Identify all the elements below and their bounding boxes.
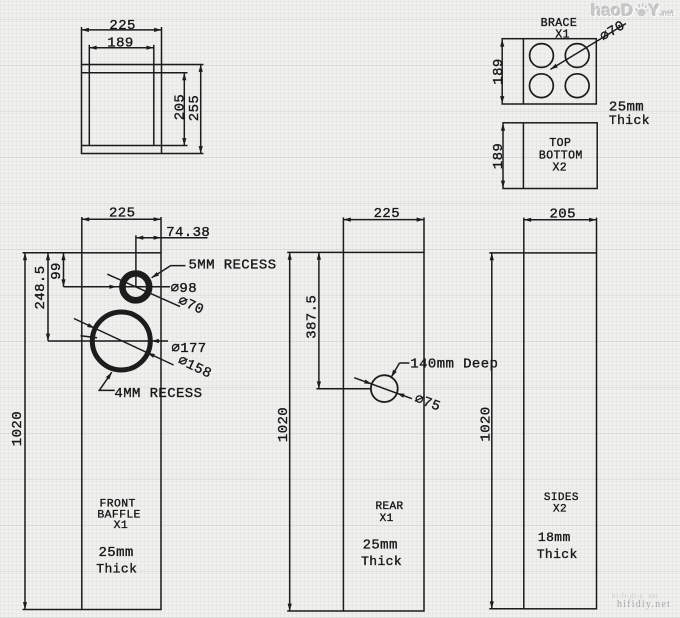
section inner top wall line [82, 72, 188, 74]
arrows 205 sides [524, 218, 531, 222]
sides right edge ext up [596, 218, 598, 253]
140mm deep leader diagonal [391, 363, 399, 377]
arrows 1020 sides [490, 253, 494, 260]
sides rect [524, 253, 597, 609]
front dia177 dim line [48, 340, 168, 342]
front left edge ext up [81, 217, 83, 253]
section inner bottom wall line [82, 145, 188, 147]
arrows 74.38 [136, 236, 143, 240]
arrows 99 [61, 253, 65, 260]
arrow 4mm recess leader [106, 371, 114, 379]
woofer ring [92, 312, 150, 370]
5mm recess leader [152, 266, 186, 278]
arrow 140mm leader [389, 370, 396, 379]
svg-text:X2: X2 [553, 504, 567, 516]
top-bottom rect [503, 123, 597, 189]
svg-text:X1: X1 [114, 520, 128, 532]
arrow 5mm recess leader [150, 272, 158, 280]
dim line 205 (section) [183, 73, 185, 146]
svg-text:205: 205 [173, 94, 189, 120]
arrows 225 section [82, 28, 89, 32]
svg-text:189: 189 [491, 143, 507, 169]
section top edge extension right [162, 64, 204, 66]
rear left edge ext up [342, 217, 344, 252]
svg-text:18mm: 18mm [538, 530, 571, 545]
front dia177 oblique arrow segment [81, 336, 98, 338]
sides bottom ext to 1020 dim [489, 608, 524, 610]
arrows dia158 [87, 323, 95, 330]
arrow dia70 brace leader [549, 64, 558, 71]
top-bottom divider line [522, 123, 524, 189]
svg-text:Thick: Thick [537, 547, 578, 562]
dim line 255 (section) [200, 65, 202, 154]
svg-text:∅177: ∅177 [171, 341, 206, 357]
svg-text:225: 225 [374, 206, 400, 222]
svg-text:189: 189 [107, 35, 133, 51]
dim line 189 (section) [89, 47, 154, 49]
rear dim line 1020 [289, 252, 291, 611]
140mm deep leader tick [400, 362, 410, 364]
arrows 225 front [82, 217, 89, 221]
arrows dia177 [90, 335, 98, 340]
front dim line 1020 [24, 253, 26, 610]
svg-text:SIDES: SIDES [544, 492, 579, 504]
arrows 387.5 [317, 252, 321, 259]
svg-text:TOP: TOP [549, 137, 571, 150]
svg-text:1020: 1020 [10, 411, 26, 446]
arrows 248.5 [46, 253, 50, 260]
svg-text:REAR: REAR [375, 501, 403, 513]
svg-text:74.38: 74.38 [166, 225, 210, 241]
svg-text:189: 189 [491, 58, 507, 84]
svg-text:205: 205 [549, 206, 575, 222]
sides dim line 205 [524, 219, 597, 221]
svg-text:X1: X1 [380, 513, 394, 525]
rear 387.5 bottom ext to port center [316, 388, 371, 390]
arrows 255 section [199, 65, 203, 72]
section bottom edge extension right [162, 153, 204, 155]
svg-text:X2: X2 [552, 162, 567, 175]
arrows 225 rear [343, 218, 350, 222]
front dim line 248.5 [47, 253, 49, 341]
svg-text:4MM RECESS: 4MM RECESS [114, 386, 202, 402]
front dim line 74.38 [136, 237, 208, 239]
front dia70 diagonal line [107, 274, 180, 306]
svg-text:225: 225 [109, 206, 135, 222]
arrows 205 section [182, 73, 186, 80]
section inner right wall [153, 45, 155, 146]
section right edge extension up [161, 27, 163, 65]
brace divider line [522, 39, 524, 104]
rear dia75 diagonal line [354, 378, 412, 399]
sides left edge ext up [523, 218, 525, 253]
section inner left wall [88, 45, 90, 146]
dim line 225 (section) [82, 29, 162, 31]
svg-text:∅70: ∅70 [597, 18, 628, 45]
svg-text:5MM RECESS: 5MM RECESS [189, 258, 277, 274]
svg-text:∅75: ∅75 [412, 391, 442, 415]
4mm recess leader [99, 372, 115, 390]
rear right edge ext up [423, 217, 425, 252]
svg-text:99: 99 [49, 262, 65, 280]
brace hole circle TR [565, 44, 589, 68]
brace hole circle BR [565, 74, 589, 98]
front bottom ext to 1020 dim [23, 609, 82, 611]
watermark haoDIY top right [591, 1, 674, 21]
brace rect [502, 39, 596, 104]
rear dim line 387.5 [318, 252, 320, 388]
svg-text:Thick: Thick [361, 554, 402, 569]
svg-text:225: 225 [109, 18, 135, 34]
svg-text:140mm Deep: 140mm Deep [410, 357, 498, 373]
brace dia70 leader [550, 24, 626, 70]
front dim line 99 [63, 253, 65, 287]
arrow dia98 [109, 285, 116, 289]
svg-text:BOTTOM: BOTTOM [539, 149, 583, 162]
svg-text:387.5: 387.5 [305, 295, 321, 339]
arrows 1020 front [23, 253, 27, 260]
front dim line 225 [82, 218, 161, 220]
arrows dia75 [364, 379, 372, 385]
rear rect [343, 252, 424, 611]
svg-text:248.5: 248.5 [33, 265, 49, 309]
svg-text:255: 255 [187, 95, 203, 121]
front dia158 diagonal line [74, 319, 174, 366]
svg-text:Thick: Thick [96, 562, 137, 577]
brace hole circle TL [530, 44, 554, 68]
section outer rect [82, 65, 162, 154]
arrows 189 brace [500, 39, 504, 46]
svg-text:1020: 1020 [479, 406, 495, 441]
rear dim line 225 [343, 219, 424, 221]
rear top ext to 1020 dim [287, 251, 343, 253]
sides top ext to 1020 dim [489, 252, 524, 254]
front top ext to 1020 dim [23, 252, 82, 254]
arrows 189 section [89, 46, 96, 50]
svg-text:X1: X1 [555, 28, 570, 41]
svg-text:Thick: Thick [609, 113, 650, 128]
front dia98 dim line [64, 286, 171, 288]
front right edge ext up [160, 217, 162, 253]
sides dim line 1020 [491, 253, 493, 609]
front rect [82, 253, 161, 610]
arrows 1020 rear [288, 252, 292, 259]
watermark hifidiy bottom right [612, 592, 659, 600]
svg-text:∅158: ∅158 [175, 353, 214, 382]
brace hole circle BL [530, 74, 554, 98]
section left edge extension up [81, 27, 83, 65]
svg-text:1020: 1020 [276, 407, 292, 442]
tweeter ring [122, 274, 149, 301]
svg-text:25mm: 25mm [363, 537, 398, 553]
svg-text:∅70: ∅70 [175, 293, 206, 318]
arrows 189 top-bottom [501, 123, 505, 130]
front 74.38 center extension down to woofer center [135, 235, 137, 287]
rear bottom ext to 1020 dim [287, 610, 343, 612]
port circle [371, 375, 398, 402]
svg-text:25mm: 25mm [98, 545, 133, 561]
